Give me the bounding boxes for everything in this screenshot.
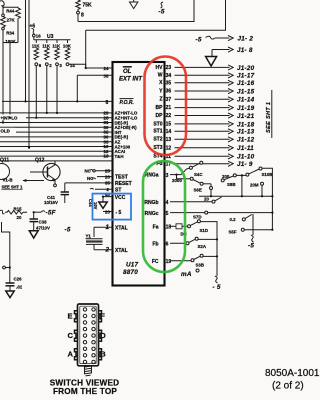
svg-text:10V: 10V	[93, 202, 98, 210]
junctions	[2, 121, 4, 123]
pin 30 AZ+DE(-R)	[0, 126, 113, 128]
node 8	[77, 11, 80, 14]
net -5 bottom	[215, 276, 218, 283]
svg-text:25: 25	[105, 169, 110, 174]
wire dropper	[9, 43, 11, 118]
ground	[9, 286, 11, 291]
svg-text:12: 12	[166, 145, 172, 151]
node circle	[2, 27, 5, 30]
svg-text:J1-20: J1-20	[237, 65, 255, 72]
capacitor C38	[33, 212, 35, 219]
net -5 stub	[161, 2, 164, 8]
svg-text:20: 20	[17, 215, 22, 220]
pin 2 ST	[95, 188, 113, 190]
wire horizontal bus	[199, 195, 272, 197]
svg-text:20: 20	[204, 196, 209, 201]
svg-text:J1-16: J1-16	[237, 80, 255, 87]
svg-text:T&H: T&H	[115, 154, 124, 159]
tab C	[75, 330, 78, 341]
svg-text:26: 26	[105, 174, 110, 179]
pin 2 XTAL	[94, 249, 113, 251]
junction	[85, 67, 87, 69]
resistor U3-a 11K	[35, 40, 37, 43]
tab F	[99, 311, 102, 322]
svg-text:34: 34	[166, 73, 172, 79]
tab A	[75, 349, 78, 360]
svg-text:75K: 75K	[83, 3, 93, 9]
tab D	[99, 330, 102, 341]
switch contact row 9	[83, 360, 86, 363]
pin 26 TEST	[97, 176, 113, 178]
svg-text:D: D	[100, 331, 106, 340]
svg-text:S5F: S5F	[229, 230, 237, 235]
svg-text:TEST: TEST	[115, 175, 128, 181]
svg-text:NC: NC	[85, 168, 92, 173]
svg-text:J1-10: J1-10	[237, 154, 255, 161]
wire pin2 dropper	[46, 66, 48, 113]
pin 24	[86, 67, 113, 69]
svg-text:S3B: S3B	[196, 263, 205, 268]
svg-text:A: A	[68, 349, 74, 358]
svg-text:J1-12: J1-12	[237, 137, 255, 144]
pin 10 AZ+100	[0, 146, 113, 148]
net -5F	[34, 211, 41, 213]
svg-text:C: C	[68, 331, 74, 340]
svg-text:22: 22	[166, 113, 172, 119]
svg-text:47/10V: 47/10V	[36, 225, 50, 230]
svg-text:ST0: ST0	[153, 121, 162, 127]
svg-text:OL: OL	[123, 69, 132, 75]
svg-text:XTAL: XTAL	[115, 248, 128, 254]
svg-text:8870: 8870	[123, 269, 138, 276]
ground inside blue box	[102, 197, 104, 202]
pin bus	[0, 160, 113, 162]
svg-text:13: 13	[166, 137, 172, 143]
svg-text:E: E	[68, 311, 73, 320]
svg-text:U17: U17	[126, 262, 139, 269]
junction	[76, 100, 78, 102]
svg-text:S10B: S10B	[262, 172, 273, 177]
svg-text:15: 15	[166, 122, 172, 128]
pin 28 AZ+INT-LO	[0, 117, 113, 119]
svg-text:- 5: - 5	[213, 284, 221, 291]
wire vertical column	[25, 0, 27, 101]
pin 33 AZ	[0, 141, 113, 143]
svg-text:10/16V: 10/16V	[44, 200, 58, 205]
pin 12 ACAI	[0, 150, 113, 152]
wire to J1-8	[212, 49, 230, 51]
pin 30 DE(-R)	[0, 136, 113, 138]
svg-text:14: 14	[70, 63, 75, 68]
pin 8 P.O.R.	[2, 100, 113, 102]
switch contact row 3	[83, 321, 86, 324]
pin 38	[77, 74, 112, 76]
svg-text:S7D: S7D	[193, 215, 202, 220]
svg-text:Y1: Y1	[86, 234, 92, 239]
svg-text:16: 16	[36, 34, 41, 39]
pin 1 XTAL	[94, 226, 113, 228]
wire	[33, 37, 35, 40]
wire	[211, 50, 213, 57]
resistor U3-b 11K	[46, 40, 48, 43]
svg-text:14: 14	[166, 129, 172, 135]
svg-text:S6E: S6E	[194, 188, 202, 193]
svg-text:10K: 10K	[63, 43, 72, 48]
svg-text:EXT INT: EXT INT	[119, 77, 143, 83]
pin circle	[3, 266, 6, 269]
svg-text:HV: HV	[156, 65, 164, 71]
svg-text:S4C: S4C	[194, 172, 203, 177]
svg-text:Q11: Q11	[0, 158, 9, 164]
wire top link	[3, 6, 18, 9]
svg-text:S8B: S8B	[227, 182, 236, 187]
pin 29 AZ+INT-LO	[0, 112, 113, 114]
shield box inner	[78, 0, 194, 22]
svg-text:20: 20	[105, 210, 110, 215]
wire corner	[2, 222, 10, 283]
pin 20 -5	[103, 211, 113, 213]
pin 32 INT	[16, 131, 113, 133]
svg-text:5: 5	[166, 211, 169, 217]
svg-text:Q12: Q12	[35, 158, 45, 164]
capacitor C41	[64, 183, 66, 192]
net squiggle top-left	[0, 1, 4, 8]
resistor U3-c 11K	[56, 40, 58, 43]
svg-text:NC: NC	[87, 176, 94, 181]
svg-text:ST3: ST3	[153, 145, 162, 151]
svg-text:8: 8	[81, 13, 84, 19]
svg-text:BP: BP	[156, 105, 164, 111]
svg-text:VCC: VCC	[115, 195, 126, 201]
svg-text:RNGc: RNGc	[145, 211, 159, 217]
svg-text:J1-19: J1-19	[237, 105, 255, 112]
svg-text:S2A: S2A	[198, 244, 207, 249]
switch contact row 7	[83, 347, 86, 350]
net squiggle	[0, 210, 5, 214]
svg-text:8050A-1001: 8050A-1001	[265, 368, 320, 379]
svg-text:27K: 27K	[7, 17, 16, 22]
svg-text:6: 6	[166, 242, 169, 248]
pin 25 NC	[95, 170, 113, 172]
switch S3B	[191, 259, 194, 262]
wire vertical column	[28, 0, 30, 148]
svg-text:R44: R44	[6, 9, 15, 14]
svg-text:ST: ST	[115, 188, 121, 194]
svg-text:V1-B: V1-B	[3, 178, 13, 183]
switch contact row 2	[83, 314, 86, 317]
svg-text:Fb: Fb	[152, 242, 158, 248]
shield box outer	[86, 0, 226, 30]
svg-text:-5: -5	[159, 9, 165, 16]
svg-text:Fa: Fa	[153, 225, 159, 231]
net OLD label	[0, 128, 15, 134]
net -5	[251, 235, 254, 242]
svg-text:C38: C38	[39, 219, 48, 224]
IC U17 8870 body	[113, 62, 165, 286]
svg-text:J1-14: J1-14	[237, 97, 255, 104]
crystal Y1	[93, 227, 95, 237]
junction	[102, 196, 104, 198]
svg-text:Z: Z	[159, 97, 162, 103]
ground	[133, 0, 135, 2]
svg-text:F: F	[100, 311, 105, 320]
svg-text:J1- 8: J1- 8	[237, 47, 253, 54]
svg-text:J1-13: J1-13	[237, 129, 255, 136]
svg-text:35: 35	[166, 80, 172, 86]
wire pin14 to IC	[69, 64, 86, 68]
switch S2A	[186, 242, 189, 245]
svg-text:SEE SHT 1: SEE SHT 1	[2, 185, 24, 190]
svg-text:11K: 11K	[52, 43, 61, 48]
svg-text:37: 37	[166, 97, 172, 103]
svg-text:B: B	[100, 349, 106, 358]
svg-text:1: 1	[106, 224, 110, 231]
svg-text:35: 35	[105, 181, 110, 186]
wire box left edge dropper	[85, 30, 87, 68]
switch contact row 5	[83, 334, 86, 337]
pin 13 T&amp;H	[0, 155, 113, 157]
resistor 75K	[76, 0, 80, 11]
annotation green ellipse	[143, 161, 185, 272]
pin 31 DE(-R)	[0, 122, 113, 124]
svg-text:R15: R15	[14, 207, 23, 212]
svg-text:RNGa: RNGa	[145, 173, 159, 179]
svg-text:J1- 9: J1- 9	[237, 161, 253, 168]
switch S1D	[188, 225, 191, 228]
wire bottom link	[3, 42, 18, 44]
pin 40 VCC	[103, 196, 113, 198]
svg-text:S1D: S1D	[200, 228, 209, 233]
svg-text:20M: 20M	[250, 183, 259, 188]
svg-text:- 5: - 5	[116, 210, 122, 216]
svg-text:ST2: ST2	[153, 137, 162, 143]
svg-text:-5F: -5F	[46, 210, 56, 217]
svg-text:-5: -5	[65, 227, 71, 234]
wire pin6 dropper	[35, 66, 37, 118]
svg-text:U3: U3	[47, 34, 54, 40]
svg-text:19: 19	[166, 259, 172, 265]
svg-text:OLD: OLD	[1, 129, 10, 134]
svg-text:36: 36	[166, 89, 172, 95]
ground	[206, 57, 217, 67]
svg-text:38: 38	[104, 74, 109, 79]
svg-text:11K: 11K	[32, 43, 41, 48]
switch contact row 6	[83, 341, 86, 344]
wire	[2, 30, 4, 123]
wire	[2, 5, 4, 14]
net +INT-LO label	[0, 115, 26, 120]
svg-text:24: 24	[104, 66, 109, 71]
resistor R44	[1, 17, 6, 28]
svg-text:J1-11: J1-11	[237, 145, 254, 152]
wire bus	[34, 39, 71, 41]
node circle	[2, 14, 5, 17]
DIP switch body	[78, 304, 99, 366]
switch S6E	[177, 175, 191, 179]
annotation red ellipse	[145, 57, 187, 156]
svg-text:0.2: 0.2	[230, 217, 237, 222]
svg-text:11K: 11K	[42, 43, 51, 48]
svg-text:J1-15: J1-15	[237, 88, 255, 95]
annotation blue rectangle	[93, 194, 132, 220]
svg-text:FROM THE TOP: FROM THE TOP	[53, 387, 117, 396]
net V1-B arrow	[23, 180, 44, 182]
svg-text:R34: R34	[6, 31, 15, 36]
svg-text:180K: 180K	[5, 39, 16, 44]
svg-text:mA: mA	[181, 271, 192, 278]
switch S10B	[246, 173, 249, 176]
pin 16	[33, 34, 36, 37]
svg-text:J1- 2: J1- 2	[238, 36, 254, 43]
svg-text:J1-17: J1-17	[237, 73, 255, 80]
svg-text:RESET: RESET	[115, 181, 132, 187]
svg-text:W: W	[158, 73, 163, 79]
tab B	[99, 349, 102, 360]
svg-text:4: 4	[166, 200, 169, 206]
svg-text:FC: FC	[152, 259, 159, 265]
switch screw	[84, 365, 92, 367]
switch contact row 1	[83, 308, 86, 311]
svg-text:(2 of 2): (2 of 2)	[272, 380, 304, 391]
svg-text:P.O.R.: P.O.R.	[120, 100, 134, 106]
wire pin3 dropper	[56, 66, 58, 113]
svg-text:21: 21	[166, 105, 172, 111]
wire	[17, 19, 19, 43]
svg-text:23: 23	[166, 65, 172, 71]
switch contact row 4	[83, 327, 86, 330]
resistor R34	[16, 8, 21, 19]
svg-text:ST1: ST1	[153, 129, 162, 135]
svg-text:3: 3	[166, 173, 169, 179]
resistor U3-d 10K	[67, 40, 69, 43]
svg-text:200: 200	[222, 174, 230, 179]
svg-text:13: 13	[104, 154, 109, 159]
switch contact row 8	[83, 354, 86, 357]
svg-text:-5: -5	[248, 243, 254, 250]
svg-text:C26: C26	[14, 277, 23, 282]
svg-text:J1-21: J1-21	[237, 113, 255, 120]
switch S4C	[177, 168, 190, 175]
wire bus	[241, 175, 243, 196]
wire	[77, 14, 79, 22]
pin 35 RESET	[65, 182, 113, 184]
svg-text:2: 2	[105, 246, 110, 253]
svg-text:DP: DP	[156, 113, 164, 119]
svg-text:J1-18: J1-18	[237, 121, 255, 128]
svg-text:SEE SHT 1: SEE SHT 1	[266, 102, 272, 133]
junction	[33, 211, 35, 213]
svg-text:18: 18	[166, 225, 172, 231]
svg-text:RNGb: RNGb	[144, 200, 158, 206]
ground	[33, 222, 35, 231]
svg-text:8: 8	[106, 100, 109, 106]
svg-text:XTAL: XTAL	[115, 226, 128, 232]
svg-text:-5: -5	[196, 37, 202, 44]
tab E	[75, 311, 78, 322]
svg-text:.01: .01	[16, 285, 23, 290]
wire	[76, 75, 78, 101]
